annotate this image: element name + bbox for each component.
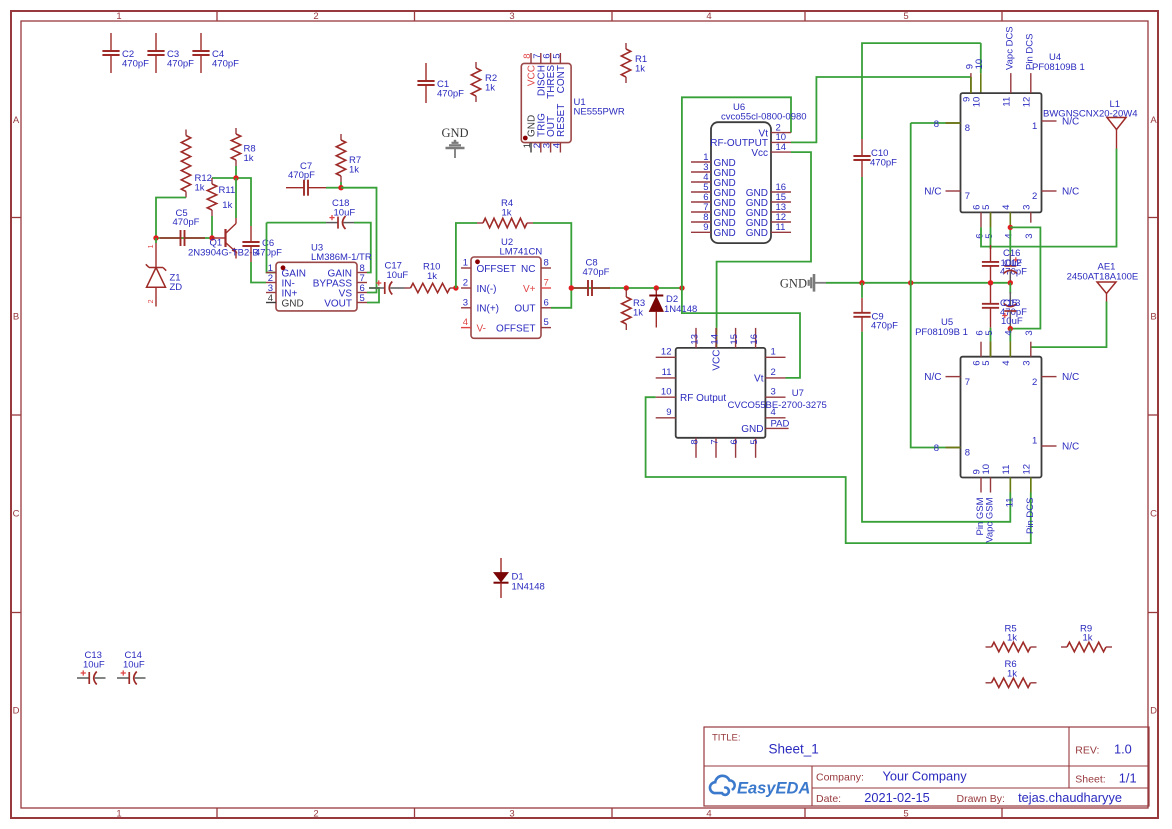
svg-text:N/C: N/C xyxy=(1062,372,1079,383)
capacitor C10 470pF xyxy=(861,139,863,156)
capacitor C14 10uF xyxy=(117,677,129,679)
svg-text:470pF: 470pF xyxy=(871,320,898,331)
svg-text:PF08109B 1: PF08109B 1 xyxy=(1032,62,1085,73)
svg-text:A: A xyxy=(13,115,20,126)
svg-text:1.0: 1.0 xyxy=(1114,742,1132,757)
svg-text:3: 3 xyxy=(771,387,776,398)
svg-text:14: 14 xyxy=(709,334,720,345)
svg-text:11: 11 xyxy=(776,222,786,233)
U4 left pin 7 stub N/C xyxy=(946,190,961,192)
wire R8 to node xyxy=(235,166,237,178)
capacitor C4 470pF xyxy=(200,33,202,51)
svg-text:10uF: 10uF xyxy=(1001,258,1023,269)
svg-text:12: 12 xyxy=(661,347,672,358)
wire C9 to U5 pin11 xyxy=(862,332,1010,522)
capacitor C2 470pF xyxy=(110,33,112,51)
svg-text:C: C xyxy=(1150,509,1157,520)
svg-text:V-: V- xyxy=(477,323,486,334)
svg-text:9: 9 xyxy=(703,222,708,233)
svg-text:10: 10 xyxy=(981,464,992,475)
svg-text:Vapc GSM: Vapc GSM xyxy=(985,497,996,542)
svg-text:12: 12 xyxy=(1021,97,1032,108)
svg-text:NC: NC xyxy=(521,264,535,275)
resistor R2 1k xyxy=(475,62,477,68)
transistor Q1 2N3904G-TB2-B xyxy=(212,237,226,239)
svg-text:4: 4 xyxy=(771,407,776,418)
wire U6 Vt to output node xyxy=(682,97,800,378)
junction nodes on GND row xyxy=(988,280,993,285)
svg-text:470pF: 470pF xyxy=(122,59,149,70)
capacitor C15 10uF lower xyxy=(1009,283,1011,294)
svg-text:4: 4 xyxy=(706,809,711,820)
svg-text:10: 10 xyxy=(974,59,985,70)
svg-text:IN(-): IN(-) xyxy=(477,284,497,295)
op-amp U2 LM741CN box xyxy=(471,257,541,338)
svg-text:1: 1 xyxy=(116,809,121,820)
svg-text:cvco55cl-0800-0980: cvco55cl-0800-0980 xyxy=(721,112,807,123)
svg-text:10uF: 10uF xyxy=(387,270,409,281)
U4 left pin 8 stub xyxy=(946,122,961,124)
svg-text:GND: GND xyxy=(441,126,468,140)
svg-text:TITLE:: TITLE: xyxy=(712,733,741,744)
resistor R3 1k xyxy=(625,288,627,291)
svg-text:1: 1 xyxy=(1032,436,1037,447)
U5 top pin stubs 6 5 4 3 xyxy=(980,342,982,357)
svg-text:15: 15 xyxy=(729,334,740,345)
svg-text:Sheet:: Sheet: xyxy=(1075,774,1105,786)
svg-text:8: 8 xyxy=(965,123,970,134)
svg-text:LM386M-1/TR: LM386M-1/TR xyxy=(311,252,372,263)
resistor R11 1k xyxy=(211,178,213,184)
svg-text:3: 3 xyxy=(1024,234,1035,239)
svg-text:U7: U7 xyxy=(792,388,804,399)
svg-text:1k: 1k xyxy=(349,164,359,175)
svg-text:5: 5 xyxy=(903,11,908,22)
wire R7 to node xyxy=(340,182,342,188)
svg-text:16: 16 xyxy=(749,334,760,345)
overlap wire on U4 pin9 lower xyxy=(970,77,972,93)
svg-text:9: 9 xyxy=(666,407,671,418)
svg-text:Pin DCS: Pin DCS xyxy=(1024,34,1035,70)
svg-text:N/C: N/C xyxy=(924,187,941,198)
svg-text:1k: 1k xyxy=(485,83,495,94)
svg-text:OFFSET: OFFSET xyxy=(477,264,516,275)
U7 left pin stubs 12 11 10 9 xyxy=(656,356,676,358)
svg-text:GND: GND xyxy=(780,276,807,290)
wire U4 pin5 to C16 xyxy=(990,227,992,249)
capacitor C17 10uF xyxy=(369,287,385,289)
ruler tick marks xyxy=(216,11,218,21)
U1 pin stubs top pins 8 7 6 5 xyxy=(530,53,532,63)
svg-text:470pF: 470pF xyxy=(437,89,464,100)
svg-text:RESET: RESET xyxy=(556,104,567,137)
svg-text:10: 10 xyxy=(971,97,982,108)
wires to U5 top pins xyxy=(990,328,992,342)
svg-text:5: 5 xyxy=(551,54,562,59)
U1 pin-1 marker dot xyxy=(523,136,528,141)
svg-text:5: 5 xyxy=(360,293,365,304)
svg-text:8: 8 xyxy=(544,258,549,269)
U4 top pin stubs 9 10 11 12 xyxy=(970,73,972,93)
svg-text:1: 1 xyxy=(771,347,776,358)
wire Q1 collector up xyxy=(235,178,237,218)
svg-text:2: 2 xyxy=(148,299,155,303)
wire C10 to GND row xyxy=(861,177,863,283)
U5 bottom pin stubs 9 10 11 12 xyxy=(980,478,982,493)
U5 right pin 1 stub N/C xyxy=(1042,445,1057,447)
svg-text:11: 11 xyxy=(1001,97,1012,107)
svg-text:C: C xyxy=(13,509,20,520)
wire U4 pin8 to U5 pin8 column xyxy=(911,123,946,448)
svg-text:13: 13 xyxy=(689,334,700,345)
wire R12 bottom loop xyxy=(156,198,186,239)
svg-text:1k: 1k xyxy=(502,207,512,218)
svg-text:8: 8 xyxy=(965,448,970,459)
title block outline xyxy=(704,727,1149,806)
svg-text:Vapc DCS: Vapc DCS xyxy=(1004,26,1015,70)
overlap wire on U5 pin12 xyxy=(1030,478,1032,493)
overlap wire on U5 pin11 xyxy=(1009,478,1011,493)
svg-text:IN(+): IN(+) xyxy=(477,304,500,315)
junction node C5 left xyxy=(153,235,158,240)
svg-text:470pF: 470pF xyxy=(255,247,282,258)
svg-text:PF08109B 1: PF08109B 1 xyxy=(915,327,968,338)
svg-text:3: 3 xyxy=(509,809,514,820)
capacitor C9 470pF xyxy=(861,298,863,313)
U7 top pin stubs 13 14 15 16 xyxy=(695,328,697,348)
IC U4 PF08109B box xyxy=(961,93,1042,212)
overlap wire on U4 pin9 xyxy=(970,77,972,93)
svg-text:N/C: N/C xyxy=(1062,442,1079,453)
svg-text:1k: 1k xyxy=(222,200,232,211)
wire GND row horizontal xyxy=(826,282,1011,284)
IC U5 PF08109B box xyxy=(961,357,1042,478)
overlap wire on U7 pin14 xyxy=(716,328,718,348)
svg-text:V+: V+ xyxy=(523,284,536,295)
svg-text:1k: 1k xyxy=(427,271,437,282)
svg-text:GND: GND xyxy=(746,228,768,239)
capacitor C8 470pF xyxy=(570,287,588,289)
svg-text:B: B xyxy=(13,312,19,323)
wire C7 to R7 node xyxy=(326,187,341,189)
diode D2 1N4148 xyxy=(655,288,657,296)
svg-text:1/1: 1/1 xyxy=(1119,771,1137,786)
wire L1 to U4 pin6 xyxy=(981,149,1117,247)
svg-text:3: 3 xyxy=(1021,205,1032,210)
svg-text:LM741CN: LM741CN xyxy=(500,247,543,258)
svg-text:470pF: 470pF xyxy=(212,59,239,70)
svg-text:1: 1 xyxy=(148,244,155,248)
svg-text:3: 3 xyxy=(463,297,468,308)
svg-text:11: 11 xyxy=(1001,465,1012,475)
svg-text:10uF: 10uF xyxy=(123,660,145,671)
svg-text:470pF: 470pF xyxy=(583,267,610,278)
svg-text:12: 12 xyxy=(1021,464,1032,475)
svg-text:7: 7 xyxy=(965,191,970,202)
svg-text:VOUT: VOUT xyxy=(324,298,352,309)
U5 left pin 8 stub xyxy=(946,447,961,449)
svg-text:5: 5 xyxy=(984,330,995,335)
junction node R3 xyxy=(624,285,629,290)
svg-text:CVCO55BE-2700-3275: CVCO55BE-2700-3275 xyxy=(728,400,827,411)
svg-text:1k: 1k xyxy=(633,308,643,319)
junction node D2 xyxy=(654,285,659,290)
wire U6 Vcc to U7 VCC pin14 xyxy=(717,152,811,328)
svg-text:Date:: Date: xyxy=(816,793,841,805)
svg-text:2: 2 xyxy=(313,11,318,22)
zener diode Z1 ZD xyxy=(155,238,157,243)
svg-text:10: 10 xyxy=(661,387,672,398)
U3 pin-1 marker dot xyxy=(281,265,286,270)
overlap wire on U4 pin10 xyxy=(980,73,982,93)
capacitor C7 470pF xyxy=(286,187,304,189)
svg-text:4: 4 xyxy=(268,293,273,304)
svg-text:4: 4 xyxy=(1001,360,1012,365)
capacitor C1 470pF xyxy=(425,63,427,81)
svg-text:A: A xyxy=(1150,115,1157,126)
svg-text:VCC: VCC xyxy=(712,350,723,371)
svg-text:2: 2 xyxy=(1032,191,1037,202)
U6 left GND pin stubs 1 3 4 5 6 7 8 9 xyxy=(691,161,711,163)
svg-text:1k: 1k xyxy=(1007,633,1017,644)
U5 right pin 2 stub N/C xyxy=(1042,376,1057,378)
wire U7 RF Output to U5 pin12 xyxy=(646,397,1031,543)
resistor R8 1k xyxy=(235,128,237,134)
op-amp U3 LM386M-1/TR box xyxy=(276,262,357,311)
svg-text:Vt: Vt xyxy=(754,373,764,384)
svg-text:2021-02-15: 2021-02-15 xyxy=(864,790,929,805)
svg-text:10uF: 10uF xyxy=(83,660,105,671)
svg-text:4: 4 xyxy=(706,11,711,22)
svg-text:2: 2 xyxy=(1032,377,1037,388)
U3 pin stubs left 1 2 3 4 xyxy=(266,272,276,274)
IC U7 CVCO55BE-2700-3275 box xyxy=(676,348,766,438)
U2 pin stubs right 8 7 6 5 xyxy=(541,267,551,269)
resistor R5 1k xyxy=(986,646,992,648)
wire node to U3 VS pin6 xyxy=(341,188,377,293)
svg-text:GND: GND xyxy=(282,298,304,309)
svg-text:RF Output: RF Output xyxy=(680,393,726,404)
junction node R4-C8 xyxy=(569,285,574,290)
junction node GND-C10 xyxy=(859,280,864,285)
svg-text:N/C: N/C xyxy=(924,372,941,383)
svg-text:7: 7 xyxy=(709,439,720,444)
resistor R7 1k xyxy=(340,134,342,140)
svg-text:Drawn By:: Drawn By: xyxy=(957,793,1005,805)
capacitor C16 470pF xyxy=(990,245,992,262)
resistor R6 1k xyxy=(986,682,992,684)
resistor R10 1k xyxy=(405,287,411,289)
wire C18 left to U3 pin1 xyxy=(267,223,277,273)
svg-text:PAD: PAD xyxy=(771,418,790,429)
svg-text:4: 4 xyxy=(551,143,562,148)
svg-text:1: 1 xyxy=(116,11,121,22)
svg-text:1k: 1k xyxy=(244,153,254,164)
capacitor C13 10uF xyxy=(77,677,89,679)
svg-text:CONT: CONT xyxy=(556,65,567,93)
svg-text:5: 5 xyxy=(984,234,995,239)
svg-text:2: 2 xyxy=(463,278,468,289)
junction node U2 IN- input xyxy=(453,285,458,290)
svg-text:3: 3 xyxy=(1021,360,1032,365)
junction node Vt column xyxy=(679,285,684,290)
U1 pin stubs bottom pins 1 2 3 4 xyxy=(530,143,532,153)
svg-text:N/C: N/C xyxy=(1062,187,1079,198)
svg-text:10uF: 10uF xyxy=(1001,316,1023,327)
overlap wire on U5 pin8 xyxy=(946,447,961,449)
resistor R1 1k xyxy=(625,43,627,49)
svg-text:7: 7 xyxy=(544,278,549,289)
svg-text:5: 5 xyxy=(544,317,549,328)
junction node R7-C7 xyxy=(338,185,343,190)
svg-text:C15: C15 xyxy=(1000,298,1017,309)
svg-text:Pin DCS: Pin DCS xyxy=(1025,498,1036,534)
junction node U4 pin4 xyxy=(1008,225,1013,230)
capacitor C12 10uF xyxy=(1009,227,1011,253)
junction node GND-pin8 column xyxy=(908,280,913,285)
U6 right pin stubs 2 10 14 xyxy=(771,132,791,134)
svg-text:OFFSET: OFFSET xyxy=(496,323,535,334)
svg-text:Sheet_1: Sheet_1 xyxy=(769,742,819,757)
wire U6 RF-OUTPUT to U4 pin9 xyxy=(791,77,971,142)
svg-text:B: B xyxy=(1150,312,1156,323)
svg-text:REV:: REV: xyxy=(1075,745,1099,757)
svg-text:8: 8 xyxy=(689,439,700,444)
svg-text:6: 6 xyxy=(544,297,549,308)
svg-text:10uF: 10uF xyxy=(334,207,356,218)
capacitor C6 470pF xyxy=(250,226,252,242)
overlap wires on U4 bottom pins xyxy=(990,212,992,227)
svg-text:1N4148: 1N4148 xyxy=(512,582,545,593)
svg-text:470pF: 470pF xyxy=(288,170,315,181)
U4 right pin 1 stub N/C xyxy=(1042,120,1057,122)
svg-text:11: 11 xyxy=(662,367,672,378)
svg-text:7: 7 xyxy=(965,377,970,388)
wire pin4 bypass right xyxy=(1010,227,1040,328)
capacitor C5 470pF xyxy=(160,237,181,239)
svg-text:470pF: 470pF xyxy=(167,59,194,70)
U4 right pin 2 stub N/C xyxy=(1042,190,1057,192)
svg-text:3: 3 xyxy=(509,11,514,22)
resistor R4 1k feedback xyxy=(456,223,477,288)
svg-text:Vcc: Vcc xyxy=(751,148,768,159)
svg-text:R11: R11 xyxy=(219,185,236,196)
svg-text:4: 4 xyxy=(1001,205,1012,210)
svg-text:1: 1 xyxy=(463,258,468,269)
svg-text:ZD: ZD xyxy=(170,282,183,293)
svg-text:NE555PWR: NE555PWR xyxy=(574,107,625,118)
svg-text:3: 3 xyxy=(1024,330,1035,335)
svg-text:11: 11 xyxy=(1004,498,1015,508)
svg-text:1k: 1k xyxy=(1007,668,1017,679)
capacitor C18 10uF xyxy=(267,222,327,224)
svg-text:GND: GND xyxy=(714,228,736,239)
svg-text:5: 5 xyxy=(981,360,992,365)
diode D1 1N4148 xyxy=(500,558,502,573)
svg-text:4: 4 xyxy=(463,317,468,328)
svg-text:tejas.chaudharyye: tejas.chaudharyye xyxy=(1018,790,1122,805)
op-amp U1 NE555PWR box xyxy=(521,63,571,142)
capacitor C13b 470pF lower xyxy=(990,284,992,304)
svg-text:Your Company: Your Company xyxy=(883,769,968,784)
U4 bottom pin stubs 6 5 4 3 xyxy=(980,212,982,227)
svg-text:470pF: 470pF xyxy=(870,157,897,168)
svg-text:2N3904G-TB2-B: 2N3904G-TB2-B xyxy=(188,247,259,258)
svg-text:6: 6 xyxy=(729,439,740,444)
svg-text:5: 5 xyxy=(903,809,908,820)
wire C6 bottom to U3 pin2 xyxy=(251,262,266,283)
wire C5 row xyxy=(156,237,212,239)
U6 right GND pin stubs 16 15 13 12 11 xyxy=(771,191,791,193)
svg-text:1k: 1k xyxy=(1083,633,1093,644)
capacitor C3 470pF xyxy=(155,33,157,51)
svg-text:5: 5 xyxy=(981,205,992,210)
wire U4 pin10 to C10 top xyxy=(862,43,981,139)
svg-text:1: 1 xyxy=(1032,121,1037,132)
wire U3 VOUT to C17 xyxy=(367,288,379,303)
overlap wire on U4 pin8 xyxy=(946,122,961,124)
svg-text:8: 8 xyxy=(934,443,939,454)
svg-text:5: 5 xyxy=(749,439,760,444)
svg-text:470pF: 470pF xyxy=(173,217,200,228)
wire AE1 to U5 pin3 xyxy=(1031,302,1107,348)
svg-text:4: 4 xyxy=(1004,234,1015,239)
IC U6 cvco55cl-0800-0980 box xyxy=(711,122,771,243)
svg-text:2450AT18A100E: 2450AT18A100E xyxy=(1067,272,1139,283)
svg-text:2: 2 xyxy=(771,367,776,378)
svg-text:14: 14 xyxy=(776,142,787,153)
junction node C15 bottom xyxy=(1008,326,1013,331)
resistor R12 1k xyxy=(185,130,187,136)
svg-text:GND: GND xyxy=(741,424,763,435)
svg-text:8: 8 xyxy=(934,119,939,130)
U2 pin-1 marker dot xyxy=(475,259,480,264)
junction node Q1 base xyxy=(209,235,214,240)
U7 right pin stubs 1 2 3 4 PAD xyxy=(765,356,785,358)
U5 left pin 7 stub N/C xyxy=(946,376,961,378)
U7 bottom pin stubs 8 7 6 5 xyxy=(695,438,697,458)
svg-text:1k: 1k xyxy=(635,64,645,75)
wire R11-R8 horizontal to C6 xyxy=(212,178,251,226)
svg-text:4: 4 xyxy=(1004,330,1015,335)
junction node R8 bottom xyxy=(233,175,238,180)
U3 pin stubs right 8 7 6 5 xyxy=(357,272,367,274)
U2 pin stubs left 1 2 3 4 xyxy=(461,267,471,269)
EasyEDA logo xyxy=(710,776,735,795)
wire R11 bottom to base node xyxy=(211,216,213,238)
svg-text:D: D xyxy=(13,706,20,717)
svg-text:EasyEDA: EasyEDA xyxy=(737,780,810,798)
svg-text:2: 2 xyxy=(313,809,318,820)
resistor R9 1k xyxy=(1061,646,1067,648)
svg-text:D: D xyxy=(1150,706,1157,717)
svg-text:OUT: OUT xyxy=(514,304,535,315)
svg-text:Company:: Company: xyxy=(816,772,864,784)
svg-text:1k: 1k xyxy=(195,183,205,194)
wire output row xyxy=(571,287,682,289)
